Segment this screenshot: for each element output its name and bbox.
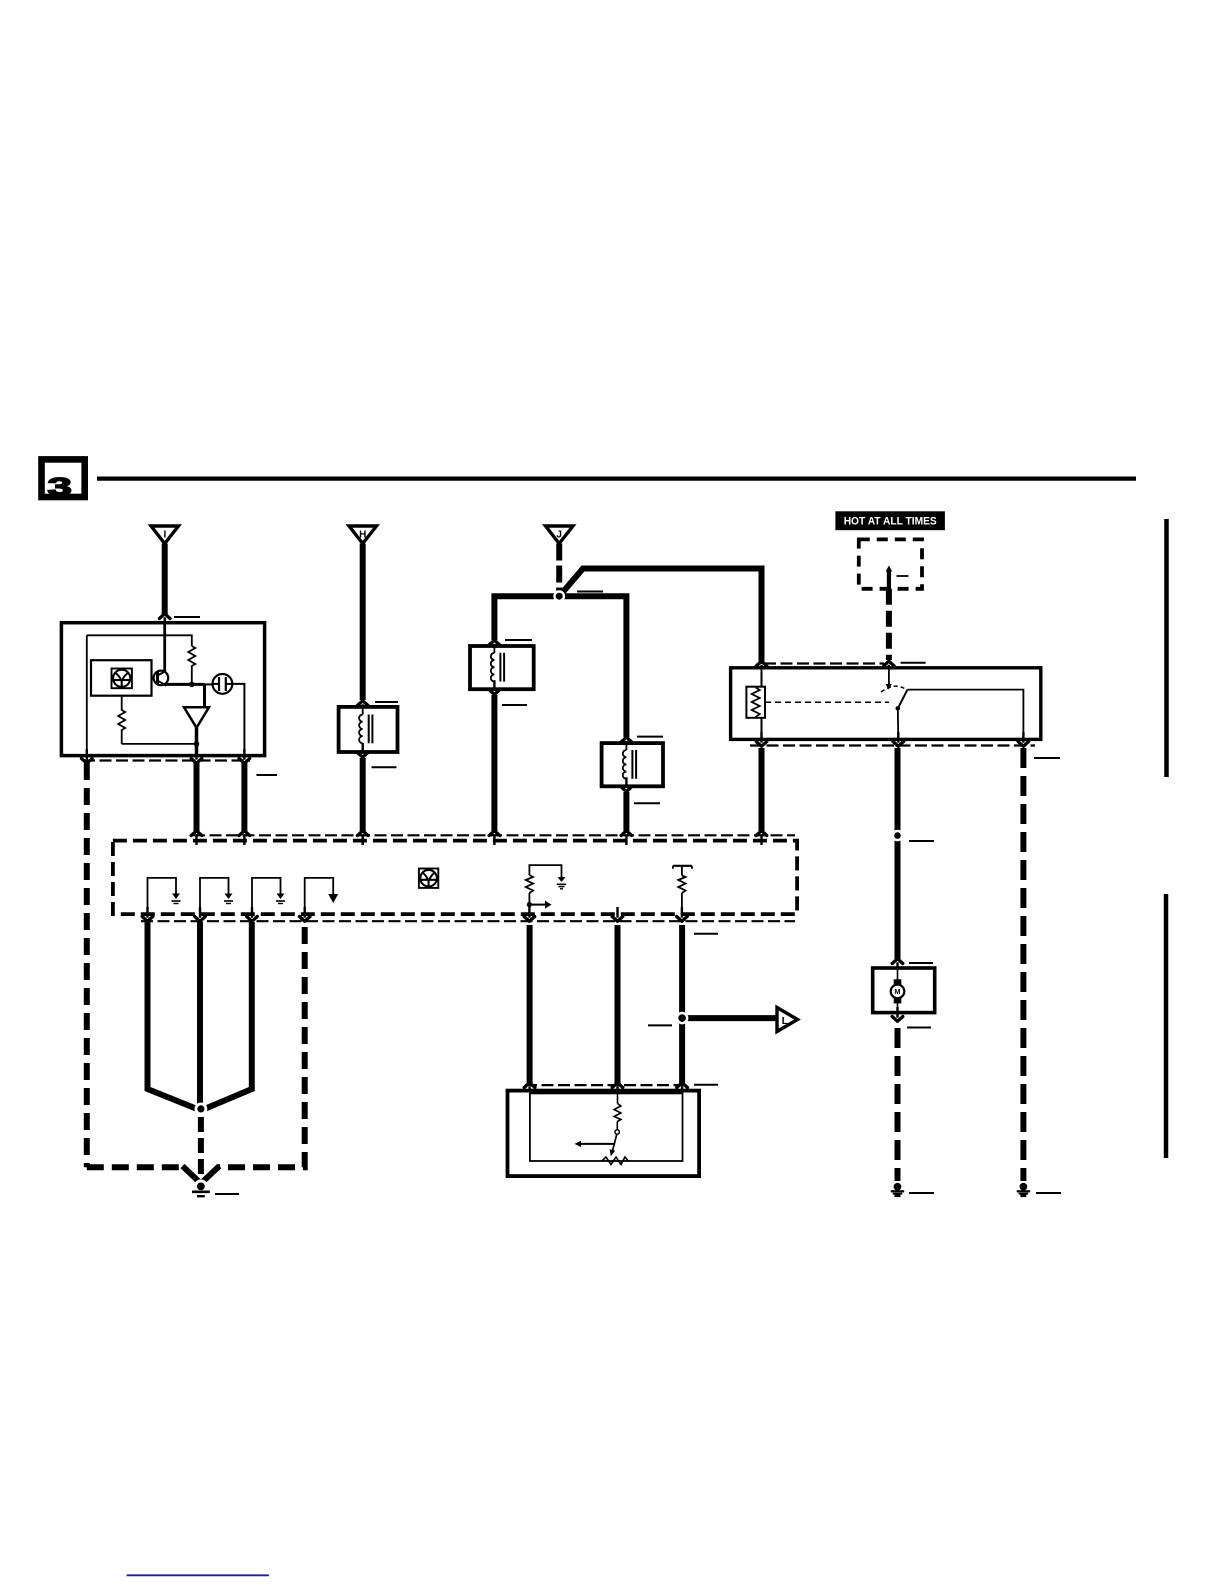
wire transistor to op-amp node: [166, 683, 205, 686]
connector dashed line below control module: [83, 759, 250, 761]
blank pin label: [372, 766, 397, 768]
blank pin label: [505, 639, 532, 641]
pin arrows main module bottom: [142, 917, 153, 922]
dashed wire left run to ground: [87, 1164, 184, 1170]
blank pin label: [909, 962, 933, 964]
svg-text:H: H: [359, 530, 366, 541]
connector dashed line below relay: [750, 744, 1035, 746]
control module box: [61, 623, 264, 756]
pin arrows main module top: [191, 831, 202, 836]
pin arrow: [489, 640, 500, 645]
header rule: [97, 476, 1136, 480]
horn 3 box (center under J): [602, 743, 663, 786]
pin arrow mid (down): [191, 759, 202, 764]
blank pin label: [1034, 757, 1060, 759]
connector dashed line below main module: [141, 920, 795, 922]
wire module to switch left: [527, 925, 533, 1084]
resistor with terminal bar branch: [673, 866, 692, 914]
pin arrow relay top mid: [884, 661, 895, 666]
wire from I to control module: [162, 544, 168, 616]
resistor to internal ground branch: [526, 865, 566, 914]
dashed wire splice to ground: [198, 1117, 204, 1179]
pin arrow relay bottom left: [756, 742, 767, 747]
dashed wire module left pin down: [84, 763, 90, 1167]
blank pin label: [648, 1024, 672, 1026]
pin arrow relay bottom right: [1018, 742, 1029, 747]
wire resistor to op-amp output: [122, 743, 197, 745]
transistor: [152, 671, 169, 686]
pin arrow relay bottom mid: [893, 742, 904, 747]
horn relay box: [731, 668, 1041, 740]
HOT AT ALL TIMES label: [835, 511, 945, 530]
footer link line: [127, 1574, 269, 1576]
wire module mid pin down: [194, 763, 200, 831]
blank pin label: [897, 575, 909, 577]
wire from I pin into transistor: [163, 623, 166, 672]
blank pin label: [694, 1084, 718, 1086]
relay coil: [746, 668, 765, 740]
connector triangle H: [349, 526, 377, 544]
ground G (right): [1017, 1183, 1030, 1196]
connector dashed line above main module: [193, 834, 795, 836]
ground G (left): [192, 1179, 210, 1196]
blank pin label: [901, 662, 926, 664]
main control module (dashed box): [113, 841, 797, 915]
blank pin label: [577, 591, 603, 593]
internal wire left side: [86, 635, 88, 755]
blank pin label: [907, 1027, 931, 1029]
pin arrow left (down): [82, 759, 93, 764]
junction: [189, 682, 195, 688]
wire module bottom 1: [148, 922, 201, 1111]
pin arrow horn2 bottom: [489, 690, 500, 695]
internal wire top: [87, 635, 192, 646]
wire relay to motor: [895, 748, 901, 961]
pin arrow: [621, 737, 632, 742]
fuse element: [887, 571, 891, 589]
pin arrow relay top left: [756, 661, 767, 666]
wire down to op-amp: [203, 684, 206, 708]
dashed wire motor to ground: [895, 1028, 901, 1181]
page number box 3: [42, 459, 85, 501]
sidebar marker lower: [1164, 894, 1169, 1158]
blank ground label: [909, 1192, 934, 1194]
steering wheel icon in module: [419, 869, 438, 888]
junction on motor wire: [892, 830, 904, 842]
junction splice: [195, 1103, 208, 1116]
svg-text:I: I: [164, 530, 167, 541]
resistor below steering box: [118, 696, 125, 744]
capacitor: [213, 674, 233, 694]
resistor on bottom edge: [602, 1157, 628, 1164]
motor box: [873, 968, 935, 1013]
op-amp triangle: [184, 707, 209, 728]
wire module bottom 2: [197, 922, 203, 1107]
pin arrow horn1 bottom: [357, 753, 368, 758]
wire to connector L: [682, 1015, 776, 1021]
pin arrow at control module top: [159, 614, 170, 619]
horn 1 box (under H): [339, 707, 398, 752]
blank pin label: [637, 736, 663, 738]
dashed wire module bottom 4: [218, 927, 305, 1167]
blank pin label: [257, 774, 278, 776]
connector triangle I: [151, 526, 179, 544]
blank pin label: [634, 802, 660, 804]
wire module to switch right: [679, 925, 685, 1084]
wire horn2 to module: [491, 695, 497, 831]
wire from H to horn: [360, 544, 366, 701]
steering wheel box: [91, 660, 152, 696]
svg-text:3: 3: [48, 473, 72, 501]
horn 2 box (left under J): [470, 646, 534, 689]
dashed wire relay right to ground: [1020, 748, 1026, 1181]
sidebar marker upper: [1164, 519, 1169, 777]
blank pin label: [909, 840, 934, 842]
connector triangle J: [546, 526, 574, 544]
connector triangle L: [777, 1008, 798, 1032]
node junction below J: [553, 590, 565, 602]
dashed wire fuse to relay: [886, 589, 892, 660]
steering wheel icon: [112, 669, 132, 689]
blank ground label: [1036, 1192, 1061, 1194]
wire module bottom 3: [201, 922, 252, 1111]
connector dashed line above switch box: [525, 1084, 690, 1086]
svg-text:J: J: [556, 530, 562, 541]
fuse box (dashed): [859, 539, 922, 588]
pin arrow right (down): [239, 759, 250, 764]
horn switch box: [508, 1091, 700, 1177]
wire relay to module: [759, 748, 765, 831]
inner boundary: [530, 1093, 683, 1161]
wire horn3 to module: [623, 792, 629, 831]
pin arrow horn3 bottom: [621, 787, 632, 792]
dashed actuation line coil to switch: [765, 701, 889, 703]
wire J junction to left horn: [494, 596, 559, 640]
svg-text:M: M: [894, 987, 900, 996]
switch resistor: [614, 1091, 621, 1135]
wire horn1 to module: [360, 758, 366, 831]
resistor in module (top): [188, 646, 195, 684]
internal hook 4 with arrow terminal: [305, 878, 339, 914]
junction: [194, 741, 200, 747]
blank pin label: [502, 704, 527, 706]
connector dashed line above relay: [764, 662, 884, 664]
internal ground hook 3: [252, 878, 285, 914]
wire J junction to center horn: [559, 596, 626, 737]
capacitor lead: [205, 683, 213, 685]
pin arrows switch box top: [524, 1083, 535, 1088]
blank ground label: [215, 1193, 239, 1195]
wire op-amp to bottom pin: [195, 728, 199, 756]
switch blade with arrow: [575, 1134, 617, 1156]
pin arrow horn top: [357, 701, 368, 706]
dashed wire from J: [556, 544, 562, 593]
wire relay to motor arrow: [892, 959, 903, 964]
internal ground hook 1: [148, 878, 181, 914]
capacitor right lead to right pin: [232, 684, 244, 756]
blank pin label: [375, 701, 398, 703]
relay switch: [881, 668, 1023, 740]
svg-text:HOT AT ALL TIMES: HOT AT ALL TIMES: [844, 516, 937, 528]
svg-text:L: L: [782, 1016, 788, 1027]
wire J junction to relay (diagonal + horizontal + down): [561, 569, 762, 665]
wire module right pin down: [241, 763, 247, 831]
ground G (motor): [891, 1183, 904, 1196]
blank pin label: [174, 616, 200, 618]
internal ground hook 2: [200, 878, 233, 914]
pin arrow motor bottom: [892, 1017, 903, 1022]
junction to L: [676, 1012, 689, 1025]
wire module to switch mid: [615, 925, 621, 1084]
blank pin label: [694, 933, 718, 935]
motor M: [891, 968, 905, 1013]
